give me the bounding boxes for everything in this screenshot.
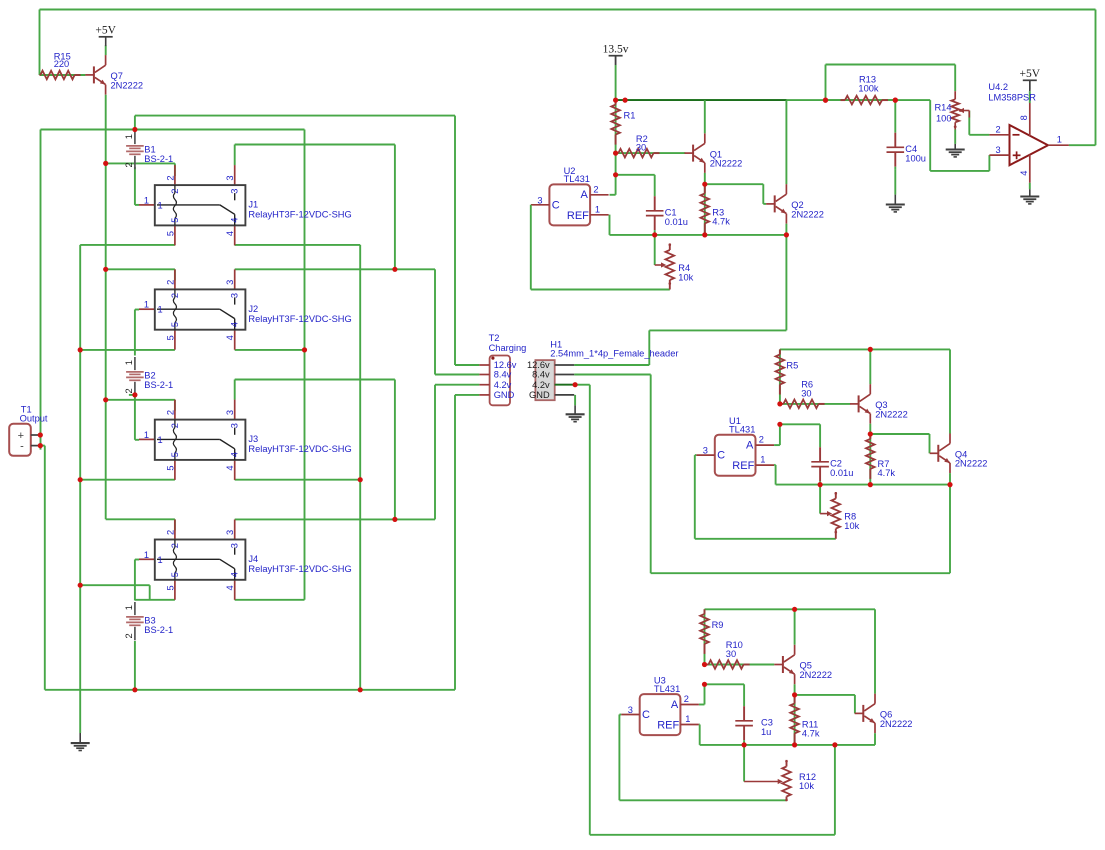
svg-text:1: 1 xyxy=(144,300,149,310)
svg-text:8.4v: 8.4v xyxy=(532,370,550,380)
svg-text:BS-2-1: BS-2-1 xyxy=(144,154,173,164)
svg-text:1: 1 xyxy=(124,360,134,365)
svg-text:3: 3 xyxy=(225,175,235,180)
svg-text:J3: J3 xyxy=(248,434,258,444)
svg-text:4.7k: 4.7k xyxy=(712,217,730,227)
svg-text:2N2222: 2N2222 xyxy=(791,209,824,219)
svg-text:5: 5 xyxy=(170,218,180,223)
svg-text:2N2222: 2N2222 xyxy=(955,459,988,469)
svg-text:C2: C2 xyxy=(830,458,842,468)
svg-text:0.01u: 0.01u xyxy=(830,468,853,478)
svg-text:5: 5 xyxy=(165,585,175,590)
svg-text:TL431: TL431 xyxy=(654,684,680,694)
svg-text:4.2v: 4.2v xyxy=(494,380,512,390)
svg-text:TL431: TL431 xyxy=(564,174,590,184)
svg-text:3: 3 xyxy=(230,189,240,194)
svg-text:8.4v: 8.4v xyxy=(494,370,512,380)
svg-text:2: 2 xyxy=(170,423,180,428)
svg-text:A: A xyxy=(581,189,589,201)
svg-text:R1: R1 xyxy=(624,111,636,121)
svg-text:J4: J4 xyxy=(248,554,258,564)
svg-text:RelayHT3F-12VDC-SHG: RelayHT3F-12VDC-SHG xyxy=(248,210,351,220)
svg-text:12.6v: 12.6v xyxy=(494,360,517,370)
svg-text:1: 1 xyxy=(124,605,134,610)
svg-text:+5V: +5V xyxy=(1020,68,1041,80)
svg-text:BS-2-1: BS-2-1 xyxy=(144,625,173,635)
svg-text:1: 1 xyxy=(158,200,163,210)
svg-text:5: 5 xyxy=(165,335,175,340)
svg-text:1u: 1u xyxy=(761,727,771,737)
svg-text:REF: REF xyxy=(657,720,679,732)
svg-text:U4.2: U4.2 xyxy=(988,82,1008,92)
svg-text:30: 30 xyxy=(636,143,646,153)
svg-text:2: 2 xyxy=(165,175,175,180)
svg-text:R8: R8 xyxy=(844,512,856,522)
svg-text:4: 4 xyxy=(225,585,235,590)
svg-text:4: 4 xyxy=(1019,171,1029,176)
svg-text:2: 2 xyxy=(170,543,180,548)
svg-text:5: 5 xyxy=(165,231,175,236)
svg-text:R9: R9 xyxy=(712,620,724,630)
svg-text:J1: J1 xyxy=(248,200,258,210)
svg-text:GND: GND xyxy=(494,390,515,400)
svg-text:2N2222: 2N2222 xyxy=(111,80,144,90)
svg-text:4: 4 xyxy=(230,218,240,223)
svg-text:2N2222: 2N2222 xyxy=(875,409,908,419)
svg-text:RelayHT3F-12VDC-SHG: RelayHT3F-12VDC-SHG xyxy=(248,314,351,324)
svg-text:1: 1 xyxy=(124,134,134,139)
svg-text:5: 5 xyxy=(165,465,175,470)
svg-text:3: 3 xyxy=(537,195,542,205)
svg-text:4: 4 xyxy=(225,465,235,470)
svg-text:3: 3 xyxy=(230,543,240,548)
svg-text:2N2222: 2N2222 xyxy=(880,719,913,729)
svg-text:T2: T2 xyxy=(489,333,500,343)
svg-text:2: 2 xyxy=(170,293,180,298)
svg-text:3: 3 xyxy=(225,280,235,285)
svg-text:1: 1 xyxy=(158,435,163,445)
svg-text:8: 8 xyxy=(1019,115,1029,120)
svg-text:GND: GND xyxy=(529,390,550,400)
svg-text:3: 3 xyxy=(225,410,235,415)
svg-text:2: 2 xyxy=(124,633,134,638)
svg-text:2: 2 xyxy=(165,280,175,285)
svg-text:LM358PSR: LM358PSR xyxy=(988,92,1036,102)
svg-text:REF: REF xyxy=(732,460,754,472)
svg-text:2: 2 xyxy=(593,184,598,194)
svg-text:1: 1 xyxy=(144,195,149,205)
svg-text:+5V: +5V xyxy=(95,25,116,37)
svg-text:2: 2 xyxy=(684,694,689,704)
svg-text:B2: B2 xyxy=(144,370,155,380)
svg-text:A: A xyxy=(746,439,754,451)
svg-text:4: 4 xyxy=(230,322,240,327)
svg-text:1: 1 xyxy=(144,430,149,440)
svg-text:2: 2 xyxy=(124,162,134,167)
svg-text:5: 5 xyxy=(170,572,180,577)
svg-text:B1: B1 xyxy=(144,144,155,154)
svg-text:Charging: Charging xyxy=(489,343,527,353)
svg-text:3: 3 xyxy=(703,446,708,456)
svg-text:4.2v: 4.2v xyxy=(532,380,550,390)
svg-text:2: 2 xyxy=(165,530,175,535)
svg-text:3: 3 xyxy=(996,145,1001,155)
svg-text:5: 5 xyxy=(170,322,180,327)
svg-text:1: 1 xyxy=(760,455,765,465)
svg-text:30: 30 xyxy=(726,649,736,659)
svg-text:R4: R4 xyxy=(678,263,690,273)
svg-text:Output: Output xyxy=(20,414,48,424)
svg-text:10k: 10k xyxy=(799,781,814,791)
svg-text:100: 100 xyxy=(936,114,952,124)
svg-text:A: A xyxy=(671,699,679,711)
svg-text:30: 30 xyxy=(801,389,811,399)
svg-text:B3: B3 xyxy=(144,615,155,625)
svg-text:4: 4 xyxy=(230,452,240,457)
svg-text:4: 4 xyxy=(225,231,235,236)
svg-text:RelayHT3F-12VDC-SHG: RelayHT3F-12VDC-SHG xyxy=(248,444,351,454)
svg-text:-: - xyxy=(20,440,24,452)
svg-text:2: 2 xyxy=(996,124,1001,134)
svg-text:2N2222: 2N2222 xyxy=(800,670,833,680)
svg-text:2: 2 xyxy=(165,410,175,415)
svg-text:C: C xyxy=(717,450,725,462)
svg-text:BS-2-1: BS-2-1 xyxy=(144,380,173,390)
svg-text:2N2222: 2N2222 xyxy=(710,159,743,169)
svg-text:1: 1 xyxy=(158,305,163,315)
svg-text:3: 3 xyxy=(225,530,235,535)
svg-text:1: 1 xyxy=(595,204,600,214)
svg-text:10k: 10k xyxy=(844,521,859,531)
svg-text:3: 3 xyxy=(230,293,240,298)
svg-text:0.01u: 0.01u xyxy=(665,217,688,227)
svg-text:J2: J2 xyxy=(248,304,258,314)
svg-text:R5: R5 xyxy=(786,361,798,371)
svg-text:4: 4 xyxy=(230,572,240,577)
svg-text:3: 3 xyxy=(230,423,240,428)
svg-text:R14: R14 xyxy=(934,102,951,112)
svg-text:100k: 100k xyxy=(858,83,879,93)
svg-text:REF: REF xyxy=(567,210,589,222)
svg-text:13.5v: 13.5v xyxy=(603,44,629,56)
svg-text:C: C xyxy=(552,199,560,211)
svg-text:C4: C4 xyxy=(905,144,917,154)
svg-text:C1: C1 xyxy=(665,207,677,217)
svg-text:4: 4 xyxy=(225,335,235,340)
svg-text:C: C xyxy=(642,709,650,721)
svg-text:10k: 10k xyxy=(678,273,693,283)
svg-text:2: 2 xyxy=(124,388,134,393)
svg-text:4.7k: 4.7k xyxy=(802,729,820,739)
svg-text:2: 2 xyxy=(170,189,180,194)
svg-text:1: 1 xyxy=(158,555,163,565)
svg-text:1: 1 xyxy=(144,550,149,560)
svg-text:3: 3 xyxy=(628,705,633,715)
svg-text:100u: 100u xyxy=(905,153,926,163)
svg-text:2.54mm_1*4p_Female_header: 2.54mm_1*4p_Female_header xyxy=(550,349,678,359)
svg-text:1: 1 xyxy=(685,714,690,724)
svg-text:220: 220 xyxy=(54,59,70,69)
svg-text:12.6v: 12.6v xyxy=(527,360,550,370)
svg-text:TL431: TL431 xyxy=(729,424,755,434)
svg-text:RelayHT3F-12VDC-SHG: RelayHT3F-12VDC-SHG xyxy=(248,564,351,574)
svg-text:2: 2 xyxy=(759,435,764,445)
svg-text:5: 5 xyxy=(170,452,180,457)
svg-text:4.7k: 4.7k xyxy=(878,468,896,478)
svg-text:C3: C3 xyxy=(761,717,773,727)
svg-text:1: 1 xyxy=(1057,135,1062,145)
